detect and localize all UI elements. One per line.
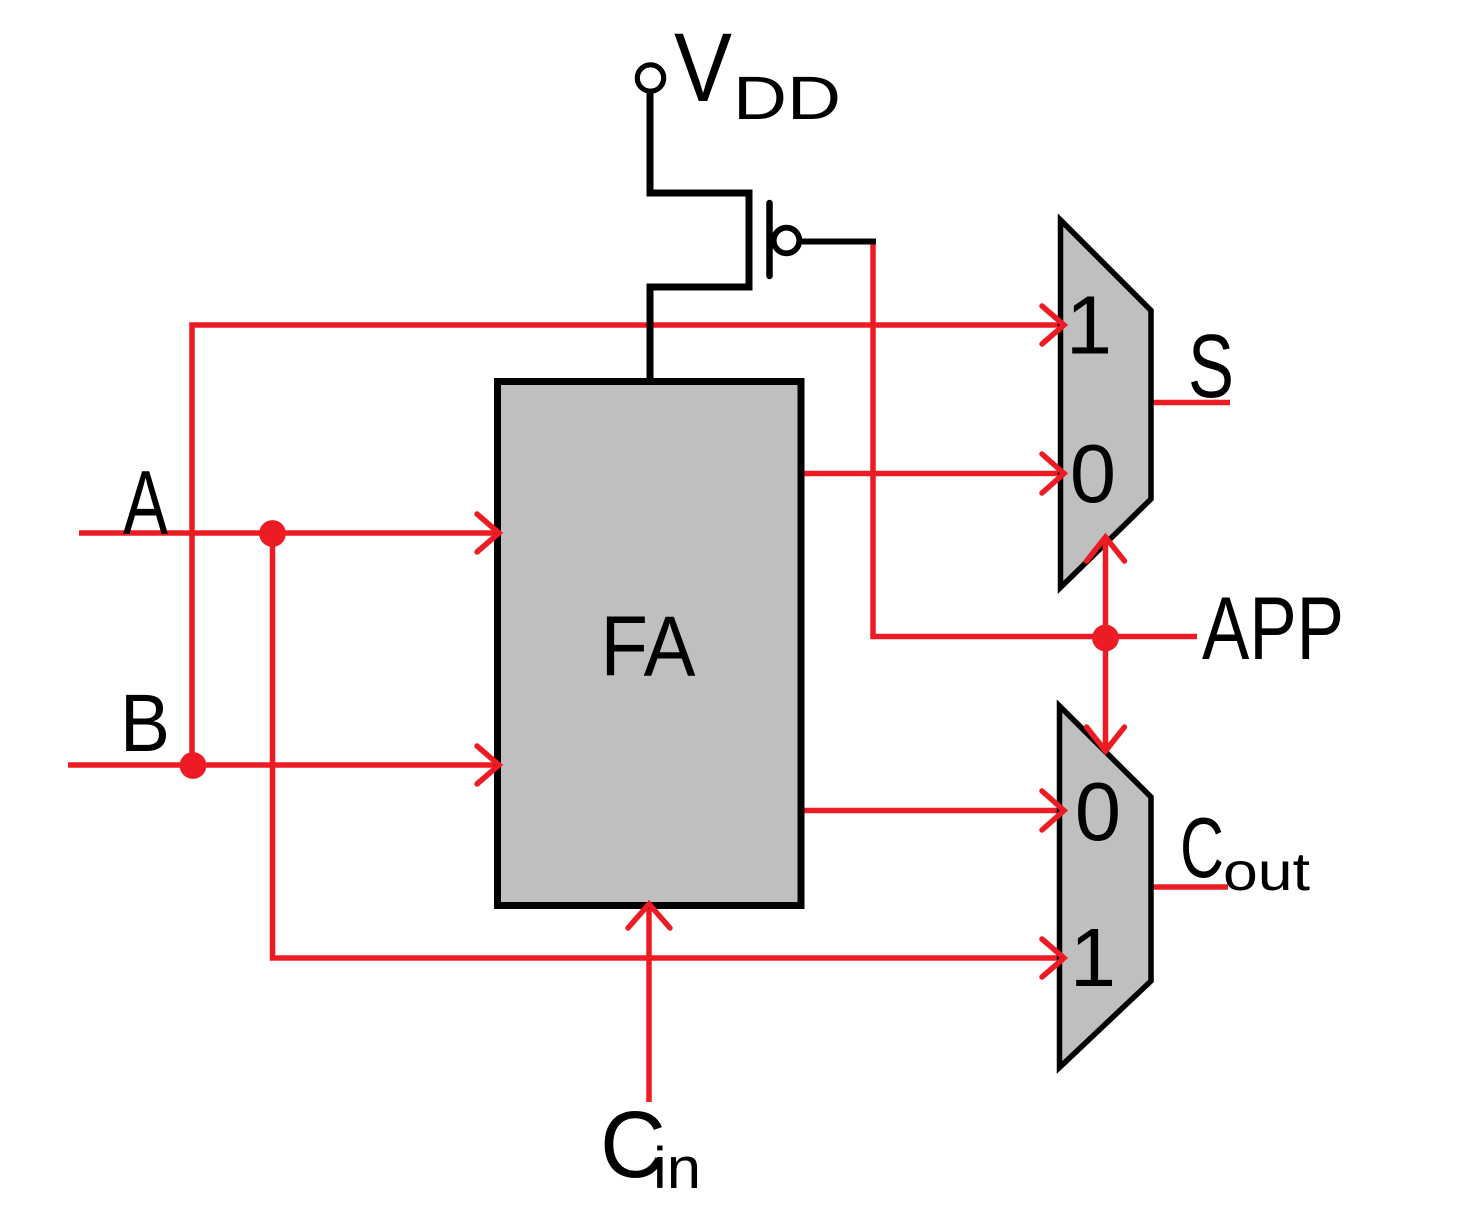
junction dot B branch xyxy=(180,752,207,779)
arrowhead into mux2 input 1 xyxy=(1042,939,1064,977)
svg-text:B: B xyxy=(120,678,170,769)
full adder FA box xyxy=(498,382,802,906)
svg-text:0: 0 xyxy=(1070,427,1116,520)
VDD terminal circle xyxy=(637,65,663,91)
wire: S output xyxy=(1151,400,1230,406)
wire: FA carry output to mux2 input 0 xyxy=(801,808,1062,814)
svg-text:in: in xyxy=(653,1136,701,1201)
arrowhead into mux1 input 1 xyxy=(1042,306,1064,344)
arrowhead B into FA xyxy=(477,746,499,784)
arrowhead into mux1 input 0 xyxy=(1042,454,1064,493)
junction dot A branch xyxy=(259,520,286,547)
wire: Cin vertical into FA bottom xyxy=(646,905,652,1102)
wire: APP net horizontal and up to PMOS gate xyxy=(873,242,1197,637)
wire: APP select up into mux1 xyxy=(1103,538,1109,637)
mux U2 (carry select) trapezoid xyxy=(1060,706,1152,1068)
svg-text:DD: DD xyxy=(733,64,841,132)
transistor Q1 source-drain path from VDD to FA xyxy=(650,92,749,381)
arrowhead Cin into FA xyxy=(628,904,670,928)
svg-text:A: A xyxy=(123,453,168,554)
mux U1 (sum select) trapezoid xyxy=(1061,220,1152,588)
wire: input A horizontal to FA xyxy=(79,530,498,536)
arrowhead select into mux1 xyxy=(1087,537,1125,561)
wire: FA sum output to mux1 input 0 xyxy=(801,471,1062,477)
svg-text:0: 0 xyxy=(1075,765,1121,858)
wire: APP select down into mux2 xyxy=(1103,637,1109,751)
wire: net B vertical and top horizontal to mux1 input 1 xyxy=(192,325,1062,765)
transistor Q1 gate bubble xyxy=(774,228,800,254)
svg-text:V: V xyxy=(674,13,732,122)
arrowhead select into mux2 xyxy=(1087,727,1125,751)
wire: input B horizontal to FA xyxy=(68,762,498,768)
arrowhead A into FA xyxy=(477,514,499,552)
junction dot APP xyxy=(1092,625,1119,652)
svg-text:S: S xyxy=(1188,317,1234,417)
svg-text:FA: FA xyxy=(601,600,696,695)
arrowhead into mux2 input 0 xyxy=(1042,791,1064,830)
wire: branch of A down and right to mux2 input 1 xyxy=(273,533,1063,958)
transistor Q1 gate bar xyxy=(766,203,773,276)
svg-text:C: C xyxy=(1180,801,1224,896)
wire: gate to APP net (black) xyxy=(800,239,876,245)
svg-text:out: out xyxy=(1223,842,1310,902)
svg-text:1: 1 xyxy=(1070,911,1116,1004)
wire: Cout output xyxy=(1150,884,1228,890)
svg-text:1: 1 xyxy=(1066,279,1112,372)
svg-text:APP: APP xyxy=(1202,578,1344,678)
